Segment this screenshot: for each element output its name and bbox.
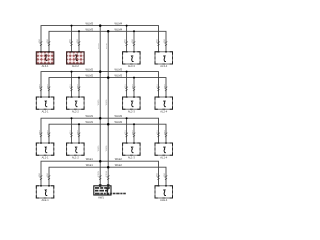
svg-text:WL1: WL1 <box>70 130 72 134</box>
svg-text:YJV16: YJV16 <box>106 146 108 152</box>
svg-text:YJV16: YJV16 <box>106 100 108 106</box>
svg-text:WLM1: WLM1 <box>86 114 94 118</box>
svg-text:WLE1: WLE1 <box>86 163 94 167</box>
svg-text:WL1: WL1 <box>164 173 166 177</box>
svg-text:WLE2: WLE2 <box>115 157 123 161</box>
svg-text:WLM4: WLM4 <box>115 27 123 31</box>
svg-text:AL1-1: AL1-1 <box>42 155 49 159</box>
svg-text:AL2-4: AL2-4 <box>160 109 167 113</box>
svg-text:WL1: WL1 <box>39 84 41 88</box>
svg-text:WL1: WL1 <box>164 39 166 43</box>
svg-text:WLM2: WLM2 <box>115 120 123 124</box>
svg-text:WL1: WL1 <box>164 130 166 134</box>
svg-text:WL1: WL1 <box>77 130 79 134</box>
svg-text:WL1: WL1 <box>157 39 159 43</box>
svg-text:WL1: WL1 <box>125 130 127 134</box>
svg-text:AL3-3: AL3-3 <box>128 64 135 68</box>
svg-text:WL1: WL1 <box>164 84 166 88</box>
svg-text:YJV25: YJV25 <box>98 146 100 152</box>
svg-text:WLM3: WLM3 <box>115 74 123 78</box>
svg-text:AL1-2: AL1-2 <box>72 155 79 159</box>
svg-text:YJV25: YJV25 <box>98 43 100 49</box>
svg-text:WL1: WL1 <box>132 84 134 88</box>
svg-text:AW1: AW1 <box>98 195 104 199</box>
svg-text:AL3-1: AL3-1 <box>42 64 49 68</box>
svg-text:WL1: WL1 <box>125 39 127 43</box>
svg-text:AL3-2: AL3-2 <box>72 64 79 68</box>
svg-text:WL1: WL1 <box>157 173 159 177</box>
svg-text:YJV16: YJV16 <box>106 43 108 49</box>
svg-text:WLM2: WLM2 <box>86 74 94 78</box>
svg-text:WL1: WL1 <box>125 84 127 88</box>
svg-text:WL1: WL1 <box>47 84 49 88</box>
svg-text:WLM3: WLM3 <box>86 22 94 26</box>
svg-text:ALE-4: ALE-4 <box>160 198 168 202</box>
svg-text:WL1: WL1 <box>39 130 41 134</box>
svg-text:AL2-1: AL2-1 <box>42 109 49 113</box>
svg-text:WLM2: WLM2 <box>115 114 123 118</box>
svg-text:YJV25: YJV25 <box>98 171 100 177</box>
svg-text:YJV25: YJV25 <box>98 100 100 106</box>
svg-text:ALE-1: ALE-1 <box>41 198 49 202</box>
svg-text:WL1: WL1 <box>132 130 134 134</box>
svg-text:AL1-4: AL1-4 <box>160 155 167 159</box>
svg-text:WL1: WL1 <box>70 84 72 88</box>
svg-text:WL1: WL1 <box>77 39 79 43</box>
svg-text:WLE2: WLE2 <box>115 163 123 167</box>
svg-text:AL3-4: AL3-4 <box>160 64 167 68</box>
svg-text:WL1: WL1 <box>77 84 79 88</box>
svg-text:WL1: WL1 <box>39 173 41 177</box>
svg-text:WL1: WL1 <box>157 84 159 88</box>
svg-text:WL1: WL1 <box>157 130 159 134</box>
svg-text:WLM1: WLM1 <box>86 120 94 124</box>
svg-text:AL2-2: AL2-2 <box>72 109 79 113</box>
svg-text:WL1: WL1 <box>47 130 49 134</box>
svg-text:WLM3: WLM3 <box>115 68 123 72</box>
svg-text:WL1: WL1 <box>47 173 49 177</box>
svg-text:WL1: WL1 <box>39 39 41 43</box>
svg-text:AL2-3: AL2-3 <box>128 109 135 113</box>
svg-text:AL1-3: AL1-3 <box>128 155 135 159</box>
svg-text:WL1: WL1 <box>70 39 72 43</box>
svg-text:WLM3: WLM3 <box>86 27 94 31</box>
svg-text:WLM4: WLM4 <box>115 22 123 26</box>
svg-text:YJV16: YJV16 <box>106 171 108 177</box>
svg-text:WLM2: WLM2 <box>86 68 94 72</box>
svg-text:WL1: WL1 <box>47 39 49 43</box>
svg-text:WL1: WL1 <box>132 39 134 43</box>
svg-text:WLE1: WLE1 <box>86 157 94 161</box>
